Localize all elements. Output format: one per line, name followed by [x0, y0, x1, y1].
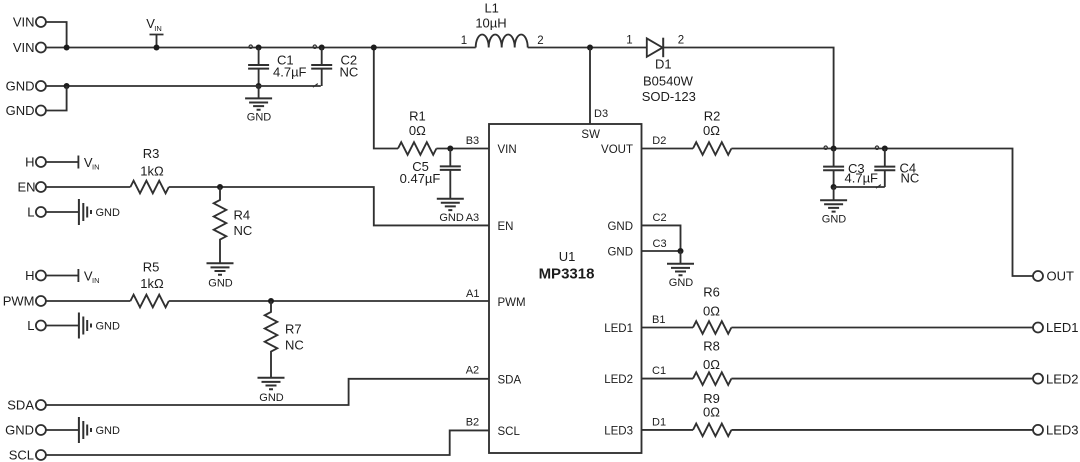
svg-text:GND: GND	[5, 423, 34, 438]
svg-text:NC: NC	[901, 171, 920, 186]
resistor R3	[130, 146, 168, 193]
svg-text:GND: GND	[247, 111, 272, 123]
svg-text:2: 2	[678, 35, 684, 47]
svg-text:C1: C1	[652, 365, 666, 377]
svg-text:GND: GND	[6, 103, 35, 118]
svg-text:IN: IN	[154, 24, 162, 33]
wire R2 to OUT	[731, 149, 1033, 277]
svg-text:1: 1	[461, 35, 467, 47]
svg-text:R4: R4	[234, 207, 251, 222]
svg-text:R7: R7	[285, 321, 302, 336]
svg-text:IN: IN	[92, 276, 100, 285]
svg-text:GND: GND	[669, 277, 694, 289]
terminal GND top	[6, 79, 46, 94]
terminal L lower	[27, 318, 46, 333]
svg-text:A3: A3	[466, 212, 479, 224]
capacitor C3	[823, 146, 878, 191]
resistor R1	[398, 109, 436, 155]
svg-text:R3: R3	[143, 146, 160, 161]
svg-text:D1: D1	[652, 416, 666, 428]
terminal SCL	[9, 448, 46, 462]
svg-text:EN: EN	[498, 221, 514, 233]
terminal PWM	[3, 294, 46, 309]
svg-text:LED2: LED2	[1046, 371, 1079, 386]
wire R3 to chip EN	[169, 187, 489, 225]
svg-text:GND: GND	[439, 212, 464, 224]
capacitor C5	[400, 149, 461, 199]
svg-text:GND: GND	[6, 79, 35, 94]
svg-text:VIN: VIN	[13, 40, 35, 55]
svg-text:GND: GND	[208, 278, 233, 290]
svg-text:NC: NC	[234, 223, 253, 238]
svg-text:H: H	[25, 155, 34, 170]
svg-text:VOUT: VOUT	[601, 144, 633, 156]
wire VOUT to R2	[642, 148, 694, 150]
svg-text:1kΩ: 1kΩ	[140, 164, 164, 179]
wire GND2 to join	[46, 86, 67, 111]
terminal OUT	[1033, 269, 1074, 284]
svg-text:GND: GND	[96, 207, 121, 219]
svg-text:GND: GND	[607, 247, 633, 259]
terminal EN	[17, 180, 45, 195]
svg-text:D3: D3	[594, 108, 608, 120]
wire PWM to R5	[46, 300, 130, 302]
svg-text:L: L	[27, 318, 34, 333]
svg-text:H: H	[25, 268, 34, 283]
resistor R2	[693, 109, 731, 155]
resistor R7	[265, 301, 304, 377]
wire C3 bottom to C4 bottom	[834, 185, 885, 189]
terminal LED1	[1033, 320, 1079, 335]
svg-text:PWM: PWM	[498, 297, 526, 309]
svg-text:0.47µF: 0.47µF	[400, 171, 441, 186]
svg-text:VIN: VIN	[498, 144, 517, 156]
svg-text:MP3318: MP3318	[539, 265, 595, 282]
node C5 tap	[447, 146, 453, 152]
terminal H lower	[25, 268, 46, 283]
svg-text:NC: NC	[340, 64, 359, 79]
svg-text:2: 2	[537, 35, 543, 47]
resistor R9	[693, 391, 731, 436]
ground under R4	[207, 263, 234, 289]
power port VIN at H upper	[46, 155, 100, 172]
svg-text:LED3: LED3	[604, 426, 633, 438]
svg-text:B0540W: B0540W	[643, 74, 694, 89]
op-amp U1 chip body MP3318	[489, 124, 642, 453]
wire D1 to output cap bank	[663, 48, 833, 149]
terminal H upper	[25, 155, 46, 170]
svg-text:R6: R6	[703, 284, 720, 299]
diode D1	[626, 35, 696, 105]
wire VIN1 to VIN2 join	[46, 22, 67, 48]
wire R5 to chip PWM	[169, 300, 489, 302]
svg-text:IN: IN	[92, 163, 100, 172]
wire L1 to D1	[528, 47, 647, 49]
svg-text:LED1: LED1	[604, 323, 633, 335]
svg-text:R1: R1	[409, 109, 426, 124]
svg-text:SCL: SCL	[9, 448, 34, 462]
terminal SDA	[7, 398, 46, 413]
svg-text:A2: A2	[466, 365, 479, 377]
svg-text:R8: R8	[703, 339, 720, 354]
wire SCL to chip	[46, 430, 489, 455]
wire R6 to LED1	[731, 327, 1033, 329]
power port VIN at H lower	[46, 268, 100, 285]
resistor R5	[130, 259, 168, 307]
svg-text:SDA: SDA	[498, 375, 522, 387]
wire VIN rail to L1	[46, 47, 476, 49]
svg-text:D2: D2	[652, 135, 666, 147]
power port GND at L upper	[46, 199, 120, 225]
wire EN to R3	[46, 186, 130, 188]
svg-text:4.7µF: 4.7µF	[273, 64, 307, 79]
node GND join	[64, 83, 70, 89]
terminal GND second	[6, 103, 46, 118]
svg-text:L1: L1	[484, 1, 498, 16]
ground under C1	[245, 86, 272, 123]
svg-text:C3: C3	[653, 238, 667, 250]
resistor R8	[693, 339, 731, 385]
wire R8 to LED2	[731, 378, 1033, 380]
svg-text:VIN: VIN	[13, 15, 35, 30]
svg-text:LED2: LED2	[604, 374, 633, 386]
svg-text:OUT: OUT	[1047, 269, 1075, 284]
svg-text:GND: GND	[96, 321, 121, 333]
terminal VIN top	[13, 15, 46, 30]
capacitor C1	[248, 45, 306, 90]
inductor L1	[461, 1, 544, 48]
capacitor C2	[311, 45, 358, 88]
wire VIN branch down to R1	[374, 48, 398, 149]
node GND pins join	[678, 248, 684, 254]
wire R1 to chip VIN	[436, 148, 489, 150]
wire R9 to LED3	[731, 429, 1033, 431]
wire GND pins to ground	[642, 225, 681, 251]
svg-text:SOD-123: SOD-123	[642, 89, 696, 104]
svg-text:B2: B2	[466, 416, 479, 428]
svg-text:0Ω: 0Ω	[703, 405, 720, 420]
terminal LED3	[1033, 423, 1079, 438]
terminal L upper	[27, 205, 46, 220]
wire GND rail	[46, 85, 321, 87]
node R4 tap	[217, 184, 223, 190]
svg-text:1kΩ: 1kΩ	[140, 276, 164, 291]
wire LED1 to R6	[642, 327, 694, 329]
svg-text:0Ω: 0Ω	[703, 303, 720, 318]
svg-text:SW: SW	[581, 129, 600, 141]
svg-text:4.7µF: 4.7µF	[845, 171, 879, 186]
terminal GND lower	[5, 423, 46, 438]
svg-text:U1: U1	[559, 249, 576, 264]
svg-text:GND: GND	[607, 221, 633, 233]
svg-text:0Ω: 0Ω	[703, 123, 720, 138]
wire SW down to chip	[589, 48, 591, 125]
svg-text:SCL: SCL	[498, 426, 521, 438]
svg-text:L: L	[27, 205, 34, 220]
wire LED2 to R8	[642, 378, 694, 380]
svg-text:LED3: LED3	[1046, 423, 1079, 438]
svg-text:SDA: SDA	[7, 398, 34, 413]
svg-text:0Ω: 0Ω	[703, 357, 720, 372]
resistor R4	[214, 187, 253, 263]
svg-text:GND: GND	[96, 425, 121, 437]
svg-text:R5: R5	[143, 259, 160, 274]
svg-text:PWM: PWM	[3, 294, 35, 309]
node SW branch	[587, 45, 593, 51]
ground under R7	[258, 378, 285, 404]
svg-text:GND: GND	[259, 392, 284, 404]
svg-text:LED1: LED1	[1046, 320, 1079, 335]
svg-text:EN: EN	[17, 180, 35, 195]
svg-text:NC: NC	[285, 338, 304, 353]
node VIN join	[64, 45, 70, 51]
resistor R6	[693, 284, 731, 334]
wire LED3 to R9	[642, 429, 694, 431]
svg-text:0Ω: 0Ω	[409, 123, 426, 138]
svg-text:GND: GND	[822, 214, 847, 226]
terminal VIN second	[13, 40, 46, 55]
ground under C3	[820, 187, 847, 226]
svg-text:1: 1	[626, 35, 632, 47]
power port GND at L lower	[46, 313, 120, 339]
ground under GND pins	[667, 251, 694, 289]
svg-text:D1: D1	[655, 57, 672, 72]
svg-text:10µH: 10µH	[475, 16, 506, 31]
svg-text:B1: B1	[652, 314, 665, 326]
capacitor C4	[874, 146, 919, 188]
svg-text:C2: C2	[653, 212, 667, 224]
power port VIN	[146, 16, 163, 50]
power port GND at GND terminal	[46, 417, 120, 443]
svg-text:R2: R2	[704, 109, 721, 124]
node VIN branch	[371, 45, 377, 51]
svg-text:A1: A1	[466, 288, 479, 300]
terminal LED2	[1033, 371, 1079, 386]
svg-text:B3: B3	[466, 135, 479, 147]
node R7 tap	[268, 298, 274, 304]
ground under C5	[437, 199, 464, 224]
wire SDA to chip	[46, 379, 489, 405]
